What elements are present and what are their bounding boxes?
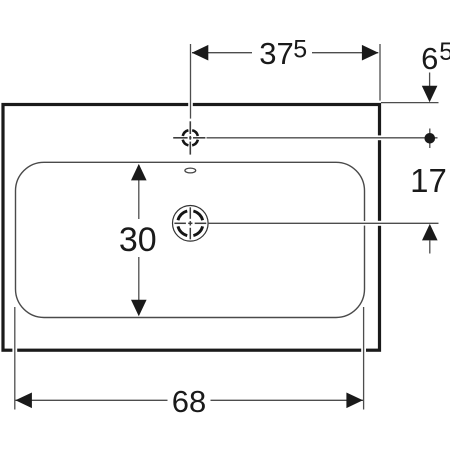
svg-text:30: 30: [119, 221, 157, 259]
drain inner ring arcs: [178, 211, 203, 236]
dimension 6.5 : top edge extension line: [381, 102, 439, 104]
dimension 37.5 : label: [259, 36, 307, 72]
dimension 6.5 : arrow leader: [429, 73, 431, 88]
dimension 6.5 : label: [421, 38, 450, 76]
tap axis leader line to the right: [207, 137, 438, 139]
dimension 68 : left extension line: [14, 307, 16, 410]
svg-text:68: 68: [172, 384, 206, 419]
white halo gaps where thin lines cross object lines: [12, 101, 382, 354]
drain outer rim: [173, 206, 209, 242]
dimension 37.5 : dimension line: [192, 52, 378, 54]
dimension 17 : arrow: [422, 224, 438, 254]
drain axis leader line to the right: [208, 222, 439, 224]
faucet hole crosshair circle: [183, 130, 198, 145]
dimension 68 : label: [172, 384, 206, 419]
dimension 6.5 : arrow: [422, 86, 438, 103]
dimension 30 : label: [119, 221, 157, 259]
overflow slot: [185, 168, 196, 173]
faucet hole center mark: [173, 121, 205, 154]
dimension 30 : arrows: [131, 164, 147, 316]
dimension 17 : dot end: [425, 129, 436, 149]
svg-text:37: 37: [259, 36, 293, 71]
dimension 68 : right extension line: [363, 307, 365, 410]
svg-text:6: 6: [421, 41, 438, 76]
dimension 17 : label: [410, 162, 447, 199]
dimension 37.5 : left extension line (tap axis): [190, 44, 192, 119]
dimension 30 : dimension line: [138, 165, 140, 315]
basin inner bowl: [16, 162, 365, 317]
svg-text:17: 17: [410, 162, 447, 199]
dimension 37.5 : right extension line: [379, 44, 381, 101]
dimension 68 : arrows: [15, 393, 363, 409]
drain center mark: [174, 207, 206, 239]
dimension 68 : dimension line: [15, 399, 363, 401]
dimension 37.5 : arrows: [192, 45, 379, 61]
svg-text:5: 5: [439, 38, 450, 66]
washbasin outer edge: [3, 105, 380, 351]
svg-text:5: 5: [293, 36, 307, 64]
